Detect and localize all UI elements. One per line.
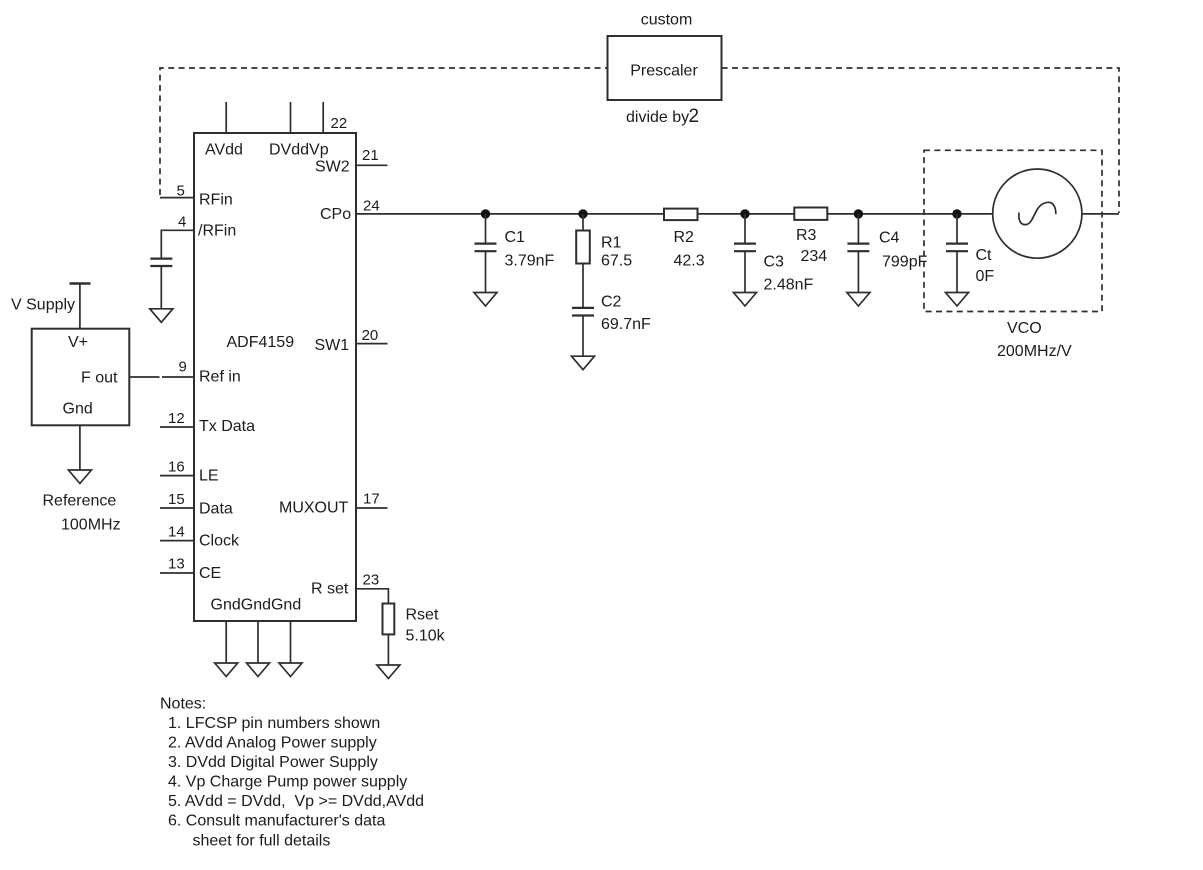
svg-text:Reference: Reference (43, 493, 117, 510)
svg-text:2. AVdd Analog Power supply: 2. AVdd Analog Power supply (168, 734, 377, 751)
svg-text:divide by: divide by (626, 109, 689, 126)
svg-text:F out: F out (81, 370, 118, 387)
svg-text:MUXOUT: MUXOUT (279, 500, 349, 517)
op-amp U1 ADF4159 chip body (194, 133, 356, 621)
svg-text:22: 22 (331, 115, 348, 132)
svg-text:Prescaler: Prescaler (630, 63, 698, 80)
svg-text:3. DVdd Digital Power Supply: 3. DVdd Digital Power Supply (168, 754, 378, 771)
VCO oscillator circle (993, 169, 1082, 258)
svg-text:69.7nF: 69.7nF (601, 316, 651, 333)
resistor R1 (582, 214, 584, 231)
pin 23 R set wire (356, 589, 388, 604)
svg-text:V+: V+ (68, 334, 88, 351)
svg-text:Clock: Clock (199, 533, 240, 550)
node junction C1 (481, 209, 490, 218)
ground at /RFin cap (150, 309, 173, 323)
svg-text:5.10k: 5.10k (406, 628, 446, 645)
wire top pin DVdd (290, 102, 292, 133)
svg-text:Gnd: Gnd (63, 401, 93, 418)
svg-text:6. Consult manufacturer's data: 6. Consult manufacturer's data (168, 813, 385, 830)
svg-text:R1: R1 (601, 235, 622, 252)
pin 12 Tx Data stub (160, 426, 194, 428)
resistor R3 (794, 208, 827, 220)
svg-text:4: 4 (178, 214, 186, 231)
svg-text:Ct: Ct (976, 247, 993, 264)
svg-text:799pF: 799pF (882, 254, 928, 271)
svg-text:0F: 0F (976, 268, 995, 285)
svg-text:15: 15 (168, 491, 185, 508)
svg-text:sheet for full details: sheet for full details (193, 832, 331, 849)
pin 5 RFin stub (160, 197, 194, 199)
ground chip 2 (247, 663, 270, 677)
notes text block (160, 696, 424, 850)
wire top pin AVdd (225, 102, 227, 133)
svg-text:14: 14 (168, 524, 185, 541)
pin 9 Ref in stub (with gap) (129, 376, 159, 378)
node junction Ct (952, 209, 961, 218)
svg-text:GndGndGnd: GndGndGnd (211, 597, 302, 614)
VCO sine symbol (1019, 202, 1056, 224)
wire feedback dashed loop (160, 68, 1119, 213)
svg-text:Tx Data: Tx Data (199, 418, 255, 435)
svg-text:100MHz: 100MHz (61, 517, 121, 534)
svg-text:CPo: CPo (320, 206, 351, 223)
ground Rset (377, 665, 400, 679)
ground C1 (474, 293, 497, 307)
wire CPo main net (356, 213, 993, 215)
ground reference (68, 470, 91, 484)
ground Ct (946, 293, 969, 307)
ground C4 (847, 293, 870, 307)
svg-text:9: 9 (179, 359, 187, 376)
svg-text:R3: R3 (796, 227, 817, 244)
svg-text:Notes:: Notes: (160, 696, 206, 713)
svg-text:24: 24 (363, 198, 380, 215)
svg-text:CE: CE (199, 565, 221, 582)
pin 14 Clock stub (160, 540, 194, 542)
wire Rset to ground (387, 634, 389, 665)
svg-text:SW2: SW2 (315, 158, 350, 175)
svg-text:67.5: 67.5 (601, 253, 632, 270)
svg-text:/RFin: /RFin (198, 223, 236, 240)
capacitor C2 (572, 308, 594, 316)
svg-text:DVddVp: DVddVp (269, 142, 329, 159)
wire box to ground (79, 425, 81, 470)
power symbol V Supply (70, 282, 91, 285)
prescaler box U2 (608, 36, 722, 100)
resistor Rset (383, 604, 395, 635)
pin 13 CE stub (160, 572, 194, 574)
svg-text:C1: C1 (505, 229, 526, 246)
svg-text:23: 23 (363, 572, 380, 589)
wire top pin Vp (322, 102, 324, 133)
svg-text:VCO: VCO (1007, 320, 1042, 337)
svg-text:R2: R2 (674, 229, 695, 246)
svg-text:234: 234 (801, 248, 828, 265)
svg-text:42.3: 42.3 (674, 253, 705, 270)
svg-text:Data: Data (199, 501, 233, 518)
svg-text:12: 12 (168, 410, 185, 427)
svg-text:Rset: Rset (406, 607, 439, 624)
svg-text:17: 17 (363, 491, 380, 508)
reference source box (32, 329, 130, 426)
svg-text:200MHz/V: 200MHz/V (997, 343, 1072, 360)
wire cap to ground (160, 266, 162, 309)
wire VCO output (1082, 213, 1119, 215)
pin 21 SW2 stub (356, 164, 388, 166)
svg-text:RFin: RFin (199, 192, 233, 209)
pin 4 /RFin stub (161, 230, 194, 258)
capacitor at /RFin (150, 259, 172, 266)
pin 15 Data stub (160, 507, 194, 509)
ground chip 1 (215, 663, 238, 677)
svg-text:3.79nF: 3.79nF (505, 253, 555, 270)
wire bottom pin Gnd3 (290, 621, 292, 663)
svg-text:1. LFCSP pin numbers shown: 1. LFCSP pin numbers shown (168, 715, 380, 732)
svg-text:2.48nF: 2.48nF (764, 277, 814, 294)
capacitor C4 (857, 214, 859, 244)
svg-text:4. Vp Charge Pump power supply: 4. Vp Charge Pump power supply (168, 774, 407, 791)
svg-text:21: 21 (362, 147, 379, 164)
svg-text:C4: C4 (879, 230, 900, 247)
ground chip 3 (279, 663, 302, 677)
svg-text:V Supply: V Supply (11, 297, 75, 314)
wire bottom pin Gnd2 (257, 621, 259, 663)
svg-text:5. AVdd = DVdd, Vp >= DVdd,AV: 5. AVdd = DVdd, Vp >= DVdd,AVdd (168, 793, 424, 810)
svg-text:16: 16 (168, 459, 185, 476)
svg-text:R set: R set (311, 581, 349, 598)
pin 17 MUXOUT stub (356, 507, 388, 509)
svg-text:AVdd: AVdd (205, 142, 243, 159)
svg-text:Ref in: Ref in (199, 369, 241, 386)
svg-text:2: 2 (689, 106, 700, 127)
ground C3 (734, 293, 757, 307)
node junction C3 (740, 209, 749, 218)
svg-text:5: 5 (177, 183, 185, 200)
wire bottom pin Gnd1 (225, 621, 227, 663)
svg-text:C2: C2 (601, 294, 622, 311)
resistor R2 (664, 209, 698, 221)
node junction C4 (854, 209, 863, 218)
svg-text:LE: LE (199, 468, 219, 485)
svg-text:ADF4159: ADF4159 (227, 334, 295, 351)
ground C2 (572, 356, 595, 370)
pin 20 SW1 stub (356, 343, 388, 345)
pin 16 LE stub (160, 475, 194, 477)
VCO dashed enclosure (924, 150, 1102, 311)
capacitor C3 (744, 214, 746, 244)
svg-text:SW1: SW1 (315, 337, 350, 354)
svg-text:custom: custom (641, 12, 693, 29)
svg-text:20: 20 (362, 327, 379, 344)
svg-text:13: 13 (168, 556, 185, 573)
capacitor Ct (956, 214, 958, 244)
capacitor C1 (485, 214, 487, 244)
node junction R1 (578, 209, 587, 218)
svg-text:C3: C3 (764, 254, 785, 271)
